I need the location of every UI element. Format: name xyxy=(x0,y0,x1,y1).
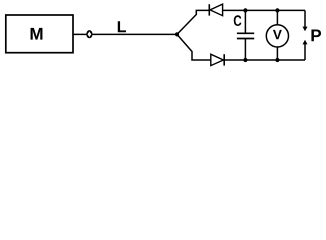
arrow down (port P top) xyxy=(303,27,308,32)
wire (cap top lead) xyxy=(244,10,246,33)
diode D1 (top, cathode left) xyxy=(209,4,222,16)
label C xyxy=(234,15,242,26)
voltmeter P1 xyxy=(266,25,288,47)
node junction xyxy=(175,32,179,36)
label P xyxy=(311,30,321,42)
wire (junction to bottom diode) xyxy=(177,34,211,60)
wire (junction to top diode) xyxy=(177,10,209,34)
node voltmeter top xyxy=(275,8,279,12)
wire (top right stub) xyxy=(304,10,306,27)
wire (bottom rail) xyxy=(224,59,305,61)
diode D2 (bottom, cathode right) xyxy=(211,54,224,65)
label M xyxy=(31,28,43,40)
node capacitor top xyxy=(243,8,247,12)
label L xyxy=(118,21,126,32)
wire (cap bottom lead) xyxy=(244,39,246,61)
capacitor C1 xyxy=(237,33,254,38)
wire (voltmeter top lead) xyxy=(276,10,278,24)
node capacitor bottom xyxy=(243,58,247,62)
wire (bottom right stub) xyxy=(304,44,306,60)
wire (M output to junction) xyxy=(73,33,177,35)
connector X1 (circle with cross) xyxy=(86,30,92,38)
arrow up (port P bottom) xyxy=(303,40,308,45)
machine M1 (box) xyxy=(6,15,73,53)
wire (top rail) xyxy=(223,9,305,11)
node voltmeter bottom xyxy=(275,58,279,62)
wire (voltmeter bottom lead) xyxy=(276,47,278,60)
